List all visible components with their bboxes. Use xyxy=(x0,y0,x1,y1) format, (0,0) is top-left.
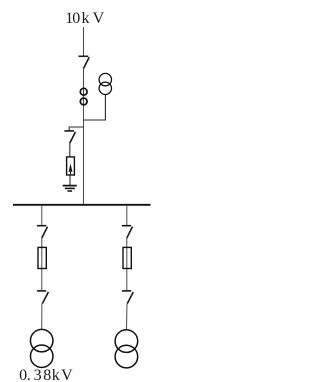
wire main incoming from 10kV xyxy=(83,27,85,56)
disconnector QS5 (feeder 2 upper switch) xyxy=(122,226,133,238)
wire main line to busbar xyxy=(83,69,85,206)
busbar 10kV xyxy=(13,204,151,206)
disconnector QS3 (feeder 1 upper switch) xyxy=(37,226,48,238)
surge arrester F (box with arrow) xyxy=(67,157,75,175)
isolating contact circle bottom (on main line) xyxy=(80,98,87,105)
wire arrester to ground xyxy=(69,175,71,185)
surge arrester arrow xyxy=(69,164,73,172)
ground symbol xyxy=(63,186,77,191)
wire arrester switch to arrester xyxy=(69,143,71,157)
svg-text:0.38kV: 0.38kV xyxy=(19,367,73,382)
svg-text:10kV: 10kV xyxy=(65,10,104,27)
disconnector QS1 (main incoming switch) xyxy=(79,56,90,68)
fuse FU2 (feeder 2) xyxy=(123,247,131,268)
isolating contact circle top (on main line) xyxy=(80,88,87,95)
wire feeder 2 to transformer xyxy=(126,304,129,330)
wire feeder 1 through fuse xyxy=(41,238,43,291)
disconnector QS2 (arrester branch switch) xyxy=(64,131,75,143)
wire feeder 1 drop xyxy=(41,205,43,226)
wire feeder 1 to transformer xyxy=(41,304,43,330)
fuse FU1 (feeder 1) xyxy=(38,247,46,268)
disconnector QS6 (feeder 2 lower switch) xyxy=(122,291,133,304)
wire feeder 2 through fuse xyxy=(126,238,128,291)
transformer T1 (two overlapping circles) xyxy=(30,329,53,352)
disconnector QS4 (feeder 1 lower switch) xyxy=(37,291,49,304)
transformer T2 (two overlapping circles) xyxy=(115,330,138,353)
voltage transformer TV (two overlapping circles) xyxy=(99,73,111,85)
wire arrester branch xyxy=(69,127,83,131)
wire PT branch xyxy=(84,95,106,120)
wire feeder 2 drop xyxy=(126,205,128,226)
